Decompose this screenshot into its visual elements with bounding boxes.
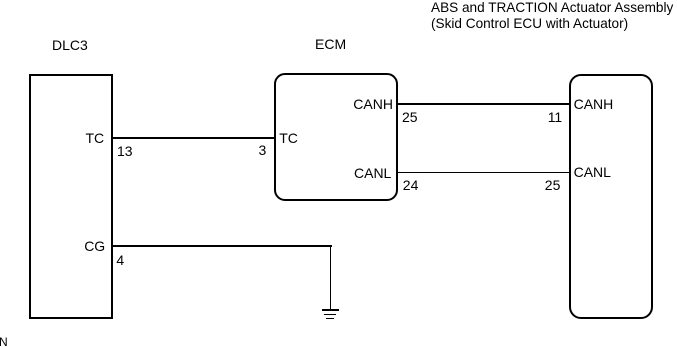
pin 24 on ECM CANL (403, 178, 419, 192)
pin 11 on actuator CANH (548, 110, 563, 124)
pin 4 on DLC3 (116, 253, 124, 267)
pin 13 on DLC3 (117, 144, 133, 158)
ECU U2 Skid Control ECU with Actuator (569, 74, 654, 319)
ECU U1 ECM (274, 73, 399, 201)
pin 25 on ECM CANH (402, 110, 418, 124)
port CANH on actuator (574, 97, 614, 111)
port CANH on ECM (353, 97, 393, 111)
label ECM (315, 37, 346, 51)
label DLC3 (52, 38, 88, 52)
port CANL on ECM (354, 166, 391, 180)
connector DLC3 (29, 74, 113, 320)
port CANL on actuator (574, 165, 611, 179)
node N fragment (cropped letter at page edge) (0, 335, 8, 347)
ground (322, 309, 339, 311)
port TC on ECM (279, 131, 298, 145)
wire CANH: ECM pin 25 to actuator pin 11 (397, 103, 570, 104)
header label: ABS and TRACTION Actuator Assembly (431, 0, 673, 33)
pin 25 on actuator CANL (545, 178, 561, 192)
pin 3 on ECM (259, 143, 267, 157)
wire CANL: ECM pin 24 to actuator pin 25 (397, 172, 570, 173)
port CG on DLC3 (84, 239, 105, 253)
port TC on DLC3 (86, 131, 105, 145)
wire TC: DLC3 pin 13 to ECM pin 3 (112, 137, 274, 138)
wire CG horizontal: DLC3 pin 4 to ground (112, 245, 332, 246)
wire CG vertical drop to ground (330, 245, 331, 310)
